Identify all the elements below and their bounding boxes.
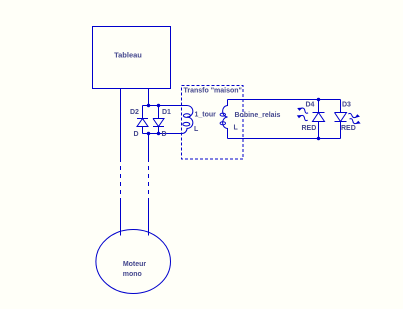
diode D2 [137,106,148,134]
wire left vertical from Tableau to motor [120,89,122,159]
motor M circle [96,230,171,294]
wire top rail [143,105,188,107]
LED D3 light arrow 2 [349,117,362,126]
svg-text:RED: RED [302,125,317,132]
junction dot D4 top [317,98,320,101]
svg-text:Moteur: Moteur [123,261,147,268]
svg-text:Tableau: Tableau [114,51,142,60]
LED D4 [313,100,325,139]
wire bottom rail [143,133,183,135]
svg-text:Bobine_relais: Bobine_relais [235,112,281,119]
junction dot bottom rail at x=148.5 [147,132,150,135]
svg-text:D4: D4 [306,102,315,109]
relay loop top rail [228,99,341,101]
LED D4 light arrow 1 [296,106,309,115]
svg-text:1_tour: 1_tour [195,112,217,119]
LED D3 [335,100,347,139]
junction dot bottom rail at x=158.5 [157,132,160,135]
svg-text:L: L [234,125,239,132]
junction dot D4 bottom [317,137,320,140]
wire right vertical from bottom rail to motor [148,134,150,159]
LED D3 light arrow 1 [348,112,361,119]
svg-text:mono: mono [123,271,142,278]
svg-text:RED: RED [341,125,356,132]
LED D4 light arrow 2 [296,113,309,122]
junction dot top rail at x=148.5 [147,104,150,107]
relay loop bottom rail [228,138,341,140]
dashed box Transfo "maison" [182,86,244,160]
diode D1 [153,106,164,134]
wire right pin of Tableau down to diode top rail [148,89,150,106]
svg-text:D3: D3 [342,102,351,109]
inductor primary 1_tour [182,106,193,134]
block Tableau [93,27,171,89]
svg-text:D2: D2 [130,109,139,116]
junction dot top rail at x=158.5 [157,104,160,107]
svg-text:L: L [194,126,199,133]
svg-text:Transfo "maison": Transfo "maison" [184,88,242,95]
svg-text:D1: D1 [162,109,171,116]
inductor secondary Bobine_relais [220,100,227,139]
svg-text:D: D [134,131,139,138]
svg-text:D: D [162,131,167,138]
